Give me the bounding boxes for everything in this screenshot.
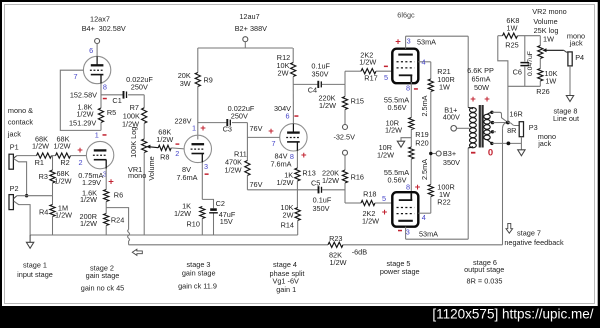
svg-text:C5: C5 [311, 178, 320, 187]
label 228V [174, 117, 191, 126]
svg-text:1/2W: 1/2W [55, 211, 72, 220]
pin 5 lower [382, 194, 386, 203]
resistor R5 [69, 103, 116, 131]
label stage 3 [178, 260, 217, 291]
terminal B3+ [429, 149, 460, 167]
wire V4 plate to transformer [406, 148, 469, 239]
svg-text:R20: R20 [415, 138, 428, 147]
svg-text:1/2W: 1/2W [224, 165, 241, 174]
svg-text:R1: R1 [35, 158, 44, 167]
svg-text:53mA: 53mA [419, 229, 438, 238]
potentiometer VR1 [128, 127, 147, 235]
wire feedback to output tap [343, 123, 508, 245]
wire P2 tip [17, 195, 53, 197]
svg-text:R17: R17 [364, 74, 377, 83]
svg-text:R5: R5 [107, 108, 116, 117]
svg-text:7: 7 [271, 139, 275, 148]
polarity minus C1 [103, 98, 107, 100]
ground bus [30, 234, 298, 236]
label 76V grid [250, 124, 263, 133]
svg-text:+: + [77, 145, 83, 156]
svg-text:-32.5V: -32.5V [333, 132, 355, 141]
label stage 6 [464, 258, 504, 286]
polarity minus pin6 [294, 115, 298, 117]
label 53mA upper [417, 37, 436, 46]
svg-text:76V: 76V [250, 180, 263, 189]
wire 0 tap [490, 142, 521, 146]
terminal B1+ [443, 105, 470, 131]
wire P1 tip to R1 [17, 155, 37, 157]
svg-text:1/2W: 1/2W [319, 101, 336, 110]
svg-text:7: 7 [73, 72, 77, 81]
pin 6 [89, 46, 93, 55]
svg-text:gain stage: gain stage [182, 268, 216, 277]
potentiometer VR2 [532, 7, 566, 69]
svg-text:stage 7: stage 7 [517, 228, 541, 237]
label mono contack jack [7, 106, 33, 139]
polarity plus pin2 [77, 145, 83, 156]
svg-text:53mA: 53mA [417, 37, 436, 46]
pin 4 upper / screen wire [418, 57, 431, 79]
resistor R16 [322, 155, 364, 203]
terminal B4+ [95, 39, 100, 61]
input jack P2 [9, 195, 17, 210]
svg-text:R10: R10 [187, 220, 200, 229]
wire P2 sleeve to ground bus [14, 201, 30, 235]
transformer core [480, 105, 483, 148]
svg-text:8R: 8R [507, 126, 516, 135]
svg-text:C4: C4 [308, 85, 317, 94]
svg-text:gain 1: gain 1 [276, 285, 296, 294]
svg-text:100K Log: 100K Log [129, 127, 138, 158]
svg-text:2.5mA: 2.5mA [420, 95, 429, 116]
label 76V lower [250, 180, 263, 189]
wire V1a grid loop [60, 70, 101, 130]
resistor R23 [328, 234, 347, 267]
svg-text:1: 1 [192, 123, 196, 132]
svg-text:R7: R7 [130, 103, 139, 112]
polarity plus plate [395, 36, 401, 47]
svg-text:gain stage: gain stage [86, 271, 120, 280]
label mono jack P3 [537, 132, 556, 148]
svg-text:12au7: 12au7 [239, 12, 259, 21]
label mono jack P4 [567, 31, 585, 47]
resistor R3 [39, 156, 72, 196]
polarity minus R8 [176, 143, 180, 144]
svg-text:R3: R3 [39, 172, 48, 181]
label 152.58V [70, 90, 97, 99]
junction P2 tip node [25, 194, 28, 197]
polarity plus lower grid [382, 207, 388, 218]
label 12ax7 / B4+ 302.58V [82, 14, 126, 32]
resistor R1 [32, 134, 52, 167]
svg-text:0.56V: 0.56V [387, 103, 406, 112]
ground symbol P4 [566, 66, 573, 102]
polarity plus secondary top [484, 94, 490, 105]
label -6dB [352, 248, 368, 257]
svg-text:1/2W: 1/2W [359, 58, 376, 67]
svg-text:388V: 388V [250, 24, 267, 33]
svg-text:1: 1 [95, 130, 99, 139]
pin 1 [192, 123, 196, 132]
pin 2 [175, 149, 179, 158]
svg-text:250V: 250V [231, 112, 248, 121]
label stage 2 [81, 264, 124, 293]
svg-text:0.56V: 0.56V [387, 175, 406, 184]
wire C3 to grid / resistor R11 [224, 123, 279, 190]
wire R2 to V1b grid [71, 155, 87, 157]
svg-text:1W: 1W [545, 77, 556, 86]
svg-text:0.047uF: 0.047uF [527, 51, 534, 76]
label 6.6K PP 65mA 50W [467, 66, 494, 92]
svg-text:jack: jack [7, 130, 21, 139]
resistor R9 [178, 48, 213, 140]
svg-text:+: + [108, 176, 114, 187]
svg-text:1/2W: 1/2W [32, 142, 49, 151]
svg-text:gain no ck 45: gain no ck 45 [81, 284, 124, 293]
label stage 7 negative feedback [504, 228, 564, 247]
svg-text:2W: 2W [283, 211, 294, 220]
svg-text:3: 3 [406, 228, 410, 237]
triode V1a [83, 56, 110, 83]
svg-text:350V: 350V [443, 158, 460, 167]
label 2.5mA upper [420, 95, 429, 116]
svg-text:C6: C6 [513, 67, 522, 76]
jack P4 [564, 50, 584, 66]
pentode V3 upper [392, 49, 418, 83]
svg-text:P4: P4 [575, 53, 584, 62]
svg-text:65mA: 65mA [471, 74, 490, 83]
wire V1a cathode node [100, 84, 102, 108]
input jack P1 [9, 154, 17, 169]
svg-text:R8: R8 [160, 152, 169, 161]
svg-text:P1: P1 [10, 142, 19, 151]
label 55.5mA 0.56V upper [384, 96, 409, 112]
svg-text:3: 3 [204, 162, 208, 171]
svg-text:6: 6 [89, 46, 93, 55]
pin 3 lower [406, 228, 410, 237]
wire 8R tap [491, 121, 508, 124]
label stage 5 [380, 259, 420, 276]
svg-text:1/2W: 1/2W [54, 177, 71, 186]
wire R11 bottom to cathode junction [247, 189, 297, 191]
resistor R17 [345, 51, 392, 85]
svg-text:output stage: output stage [464, 265, 504, 274]
svg-text:1/2W: 1/2W [362, 216, 379, 225]
svg-text:VR2 mono: VR2 mono [532, 7, 566, 16]
label 6l6gc [397, 10, 415, 19]
pin 7 [73, 72, 77, 81]
svg-text:152.58V: 152.58V [70, 90, 97, 99]
resistor R21 [428, 67, 455, 154]
svg-text:1/2W: 1/2W [329, 258, 346, 267]
label 8V 7.6mA [176, 165, 197, 182]
polarity plus pin3 [108, 176, 114, 187]
svg-text:R2: R2 [60, 158, 69, 167]
polarity plus pin7 [268, 126, 274, 137]
svg-text:8: 8 [103, 82, 107, 91]
svg-text:1/2W: 1/2W [276, 178, 293, 187]
svg-text:input stage: input stage [17, 270, 53, 279]
svg-text:2: 2 [78, 158, 82, 167]
label 84V 7.6mA [270, 152, 291, 169]
label 55.5mA 0.56V lower [384, 168, 409, 184]
VR1 wiper arrow [146, 145, 158, 181]
svg-text:contack: contack [8, 118, 33, 127]
ground symbol output cathode [397, 138, 411, 148]
svg-text:2W: 2W [278, 69, 289, 78]
svg-text:B3+: B3+ [443, 149, 456, 158]
svg-text:+: + [395, 36, 401, 47]
triode V2a [184, 135, 211, 162]
svg-text:250V: 250V [131, 82, 148, 91]
triode V2b [280, 124, 307, 151]
svg-text:1/2W: 1/2W [80, 219, 97, 228]
resistor R19 [385, 82, 429, 147]
svg-text:3: 3 [407, 37, 411, 46]
resistor R25 [498, 16, 541, 49]
svg-text:mono &: mono & [8, 106, 33, 115]
pin 8 lower [406, 182, 410, 191]
label 2.5mA lower [420, 159, 429, 180]
label P1 [10, 142, 19, 151]
arrow feedback left [132, 249, 142, 255]
svg-text:R15: R15 [351, 97, 364, 106]
svg-text:R6: R6 [114, 190, 123, 199]
VR2 wiper arrow [542, 48, 564, 52]
resistor R15 [318, 84, 364, 124]
polarity minus cathode upper [414, 88, 418, 90]
capacitor C5 [297, 178, 345, 212]
resistor R8 [156, 128, 184, 162]
svg-text:1W: 1W [507, 24, 518, 33]
resistor R6 [80, 169, 123, 208]
svg-text:12ax7: 12ax7 [90, 14, 110, 23]
pentode V4 lower [392, 192, 418, 227]
B2+ terminal [243, 37, 248, 48]
svg-text:5: 5 [384, 73, 388, 82]
svg-text:6l6gc: 6l6gc [397, 10, 415, 19]
svg-text:16R: 16R [509, 110, 522, 119]
svg-text:stage 4: stage 4 [273, 260, 297, 269]
svg-text:7.6mA: 7.6mA [270, 159, 291, 168]
label 53mA lower [419, 229, 438, 238]
svg-text:1/2W: 1/2W [80, 195, 97, 204]
svg-text:1W: 1W [543, 35, 554, 44]
capacitor C3 [198, 104, 255, 133]
svg-text:350V: 350V [312, 204, 329, 213]
svg-text:P3: P3 [529, 123, 538, 132]
ground symbol P3 [518, 137, 525, 156]
pin 3 upper [407, 37, 411, 46]
svg-text:R26: R26 [536, 87, 549, 96]
svg-text:76V: 76V [250, 124, 263, 133]
svg-text:R13: R13 [302, 168, 315, 177]
label 16R [509, 110, 522, 119]
wire lineout left rail [498, 36, 508, 123]
label stage 8 Line out [553, 107, 579, 123]
svg-text:+: + [200, 123, 206, 134]
transformer secondary winding [484, 112, 492, 143]
capacitor C4 [293, 62, 345, 95]
svg-text:7.6mA: 7.6mA [176, 173, 197, 182]
svg-text:302.58V: 302.58V [99, 24, 126, 33]
wire feedback run [129, 244, 328, 246]
svg-text:R4: R4 [39, 208, 48, 217]
svg-text:mono: mono [128, 171, 146, 180]
svg-text:R23: R23 [329, 234, 342, 243]
svg-text:2.5mA: 2.5mA [420, 159, 429, 180]
svg-text:1/2W: 1/2W [377, 150, 394, 159]
svg-text:R9: R9 [204, 76, 213, 85]
resistor R2 [53, 134, 70, 167]
wire B2+ rail [198, 47, 293, 49]
triode V1b [86, 141, 113, 168]
svg-text:[1120x575] https://upic.me/: [1120x575] https://upic.me/ [432, 306, 593, 321]
polarity minus primary bottom [471, 152, 475, 154]
svg-text:R14: R14 [281, 221, 294, 230]
ground symbol input [26, 235, 33, 248]
terminal -32.5V lower [343, 150, 348, 155]
svg-text:4: 4 [422, 213, 426, 222]
svg-text:+: + [470, 94, 476, 105]
resistor R24 [80, 208, 125, 235]
polarity minus R17 [384, 66, 388, 68]
svg-text:B4+: B4+ [82, 24, 95, 33]
pin 5 upper [384, 73, 388, 82]
terminal -32.5V upper [343, 125, 348, 130]
wire feedback branch from R6/R24 junction [106, 208, 128, 230]
svg-text:1/2W: 1/2W [76, 109, 93, 118]
arrow stage7 down [506, 223, 513, 233]
svg-text:151.29V: 151.29V [69, 118, 96, 127]
label 8R [507, 126, 516, 135]
svg-text:400V: 400V [443, 112, 460, 121]
svg-text:R22: R22 [437, 198, 450, 207]
polarity minus pin3 [205, 173, 209, 175]
polarity minus pin1 [103, 134, 107, 136]
svg-text:R25: R25 [505, 40, 518, 49]
svg-text:50W: 50W [474, 83, 489, 92]
svg-text:power stage: power stage [380, 267, 420, 276]
polarity minus plate lower [398, 230, 402, 232]
wire P1 switch contact [14, 159, 27, 196]
svg-text:1/2W: 1/2W [322, 176, 339, 185]
label stage 4 [270, 260, 305, 294]
svg-text:+: + [484, 94, 490, 105]
svg-text:1W: 1W [439, 82, 450, 91]
label P2 [10, 184, 19, 193]
svg-text:R24: R24 [111, 215, 124, 224]
svg-text:R16: R16 [351, 172, 364, 181]
polarity plus primary top [470, 94, 476, 105]
resistor R4 [39, 196, 72, 235]
label 12au7 / B2+ 388V [235, 12, 267, 33]
pin 2 [78, 158, 82, 167]
transformer primary winding [468, 108, 476, 148]
svg-text:Volume: Volume [147, 156, 156, 180]
pin 8 [290, 152, 294, 161]
wire feedback hop over ground bus [128, 230, 130, 245]
label 304V [274, 104, 291, 113]
pin 6 [285, 112, 289, 121]
svg-text:C2: C2 [216, 199, 225, 208]
svg-text:gain ck 11.9: gain ck 11.9 [178, 282, 217, 291]
svg-text:jack: jack [537, 139, 551, 148]
pin 4 lower / screen wire / resistor R22 [418, 154, 454, 222]
resistor R26 [536, 69, 557, 97]
resistor R13 [276, 151, 315, 190]
resistor R7 [122, 95, 147, 139]
svg-text:negative feedback: negative feedback [504, 238, 564, 247]
svg-text:C1: C1 [112, 96, 121, 105]
wire V3 plate to transformer [406, 36, 469, 107]
svg-text:0: 0 [488, 147, 493, 158]
svg-text:6: 6 [285, 112, 289, 121]
resistor R20 [377, 138, 429, 193]
svg-text:B2+: B2+ [235, 24, 248, 33]
svg-text:350V: 350V [311, 70, 328, 79]
resistor R12 [277, 48, 296, 124]
pin 3 [204, 162, 208, 171]
svg-text:+: + [268, 126, 274, 137]
svg-text:8: 8 [406, 83, 410, 92]
svg-text:R18: R18 [363, 190, 376, 199]
svg-text:8: 8 [406, 182, 410, 191]
svg-text:-6dB: -6dB [352, 248, 368, 257]
svg-text:8R = 0.035: 8R = 0.035 [467, 277, 503, 286]
svg-text:1/2W: 1/2W [174, 209, 191, 218]
svg-text:+: + [301, 150, 307, 161]
svg-text:3W: 3W [180, 79, 191, 88]
svg-text:stage 1: stage 1 [23, 260, 47, 269]
pin 3 [103, 169, 107, 178]
resistor R10 [174, 162, 205, 235]
polarity plus pin1 [200, 123, 206, 134]
svg-text:15V: 15V [220, 217, 233, 226]
polarity plus pin8 [301, 150, 307, 161]
svg-text:jack: jack [569, 38, 583, 47]
capacitor C2 [202, 199, 236, 235]
watermark bar [0, 306, 600, 328]
svg-text:1/2W: 1/2W [156, 135, 173, 144]
svg-text:Line out: Line out [553, 114, 579, 123]
junction output tap [506, 121, 510, 125]
wire R1-R2 junction [52, 155, 56, 157]
pin 8 [103, 82, 107, 91]
capacitor C6 [513, 36, 534, 87]
label 0.75mA 1.29V [78, 171, 103, 187]
svg-text:Volume: Volume [533, 17, 557, 26]
svg-text:+: + [382, 207, 388, 218]
svg-text:P2: P2 [10, 184, 19, 193]
svg-text:5: 5 [382, 194, 386, 203]
polarity plus cathode lower [415, 182, 421, 193]
label 0 secondary bottom [488, 147, 493, 158]
svg-text:2: 2 [175, 149, 179, 158]
svg-text:4: 4 [421, 57, 425, 66]
wire 16R tap [490, 111, 508, 123]
svg-text:1/2W: 1/2W [385, 126, 402, 135]
resistor R14 [281, 190, 301, 235]
wire 4R tap stub [491, 130, 496, 133]
svg-text:1.29V: 1.29V [82, 178, 101, 187]
pin 8 upper [406, 83, 410, 92]
svg-text:C3: C3 [223, 124, 232, 133]
pin 7 [271, 139, 275, 148]
jack P3 [508, 122, 538, 137]
capacitor C1 [101, 75, 153, 105]
